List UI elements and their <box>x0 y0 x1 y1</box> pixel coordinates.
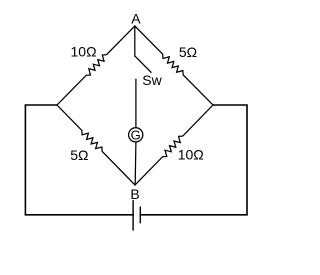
svg-text:10Ω: 10Ω <box>71 44 97 60</box>
svg-text:A: A <box>131 11 141 27</box>
svg-text:5Ω: 5Ω <box>70 147 88 163</box>
svg-text:Sw: Sw <box>142 72 162 88</box>
svg-text:G: G <box>131 127 141 142</box>
svg-text:B: B <box>130 186 139 202</box>
svg-text:5Ω: 5Ω <box>179 44 197 60</box>
svg-text:10Ω: 10Ω <box>178 147 204 163</box>
